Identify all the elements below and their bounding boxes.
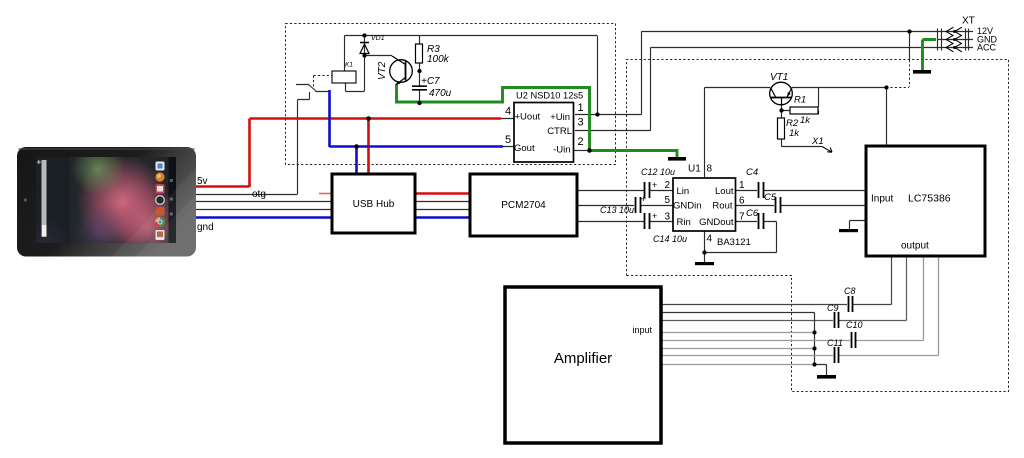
svg-text:+: + [652,211,657,221]
svg-text:+Uout: +Uout [515,112,541,123]
svg-text:XT: XT [962,16,975,27]
svg-text:1k: 1k [789,128,800,139]
svg-text:VT1: VT1 [770,72,788,83]
svg-text:Lout: Lout [715,186,734,197]
svg-text:4: 4 [505,106,511,118]
svg-text:7: 7 [739,212,745,223]
svg-text:+: + [652,180,657,190]
svg-text:8: 8 [707,164,713,175]
svg-text:2: 2 [665,180,671,191]
svg-text:GNDout: GNDout [699,217,734,228]
svg-text:3: 3 [665,212,671,223]
svg-text:U2: U2 [516,91,528,101]
svg-text:5: 5 [665,195,671,206]
svg-text:-Uin: -Uin [553,145,570,156]
svg-text:5v: 5v [197,176,208,187]
svg-text:gnd: gnd [197,222,214,233]
svg-text:1k: 1k [800,115,811,126]
svg-text:3: 3 [578,117,584,129]
svg-text:C8: C8 [844,286,856,296]
svg-text:LC75386: LC75386 [908,193,951,205]
svg-text:otg: otg [252,189,266,200]
svg-text:C4: C4 [746,167,758,178]
svg-text:C5: C5 [764,192,777,203]
svg-text:Input: Input [871,194,893,205]
svg-text:470u: 470u [429,88,452,99]
svg-text:+C7: +C7 [421,76,440,87]
svg-text:Gout: Gout [514,143,535,154]
svg-text:5: 5 [505,134,511,146]
svg-text:VT2: VT2 [377,61,388,80]
svg-text:NSD10 12s5: NSD10 12s5 [531,91,584,101]
svg-text:C10: C10 [846,320,863,330]
svg-text:ACC: ACC [977,43,997,53]
svg-text:Rout: Rout [712,201,732,212]
svg-text:C9: C9 [827,303,839,313]
svg-text:CTRL: CTRL [547,126,572,137]
svg-text:+Uin: +Uin [550,112,570,123]
svg-text:4: 4 [707,234,713,245]
svg-text:100k: 100k [427,54,450,65]
svg-text:1: 1 [739,180,745,191]
svg-text:Amplifier: Amplifier [554,350,612,367]
svg-text:R1: R1 [794,95,806,106]
svg-text:C6: C6 [746,208,759,219]
svg-text:Rin: Rin [677,217,691,228]
svg-text:C14 10u: C14 10u [653,234,687,244]
svg-text:C11: C11 [827,338,843,348]
svg-text:PCM2704: PCM2704 [501,200,546,211]
svg-text:2: 2 [578,136,584,148]
svg-text:U1: U1 [688,164,701,175]
svg-text:+: + [641,194,646,204]
svg-text:GNDin: GNDin [673,201,702,212]
svg-text:output: output [901,241,929,252]
svg-text:C12 10u: C12 10u [641,167,675,177]
svg-text:VD1: VD1 [371,35,385,42]
svg-text:Lin: Lin [677,186,690,197]
svg-text:X1: X1 [811,136,824,147]
svg-text:1: 1 [578,102,584,114]
svg-text:USB Hub: USB Hub [353,199,395,210]
svg-text:BA3121: BA3121 [717,237,751,248]
svg-text:6: 6 [739,196,745,207]
svg-text:input: input [632,325,652,335]
svg-text:C13 10u: C13 10u [600,205,634,215]
svg-text:K1: K1 [345,62,353,69]
